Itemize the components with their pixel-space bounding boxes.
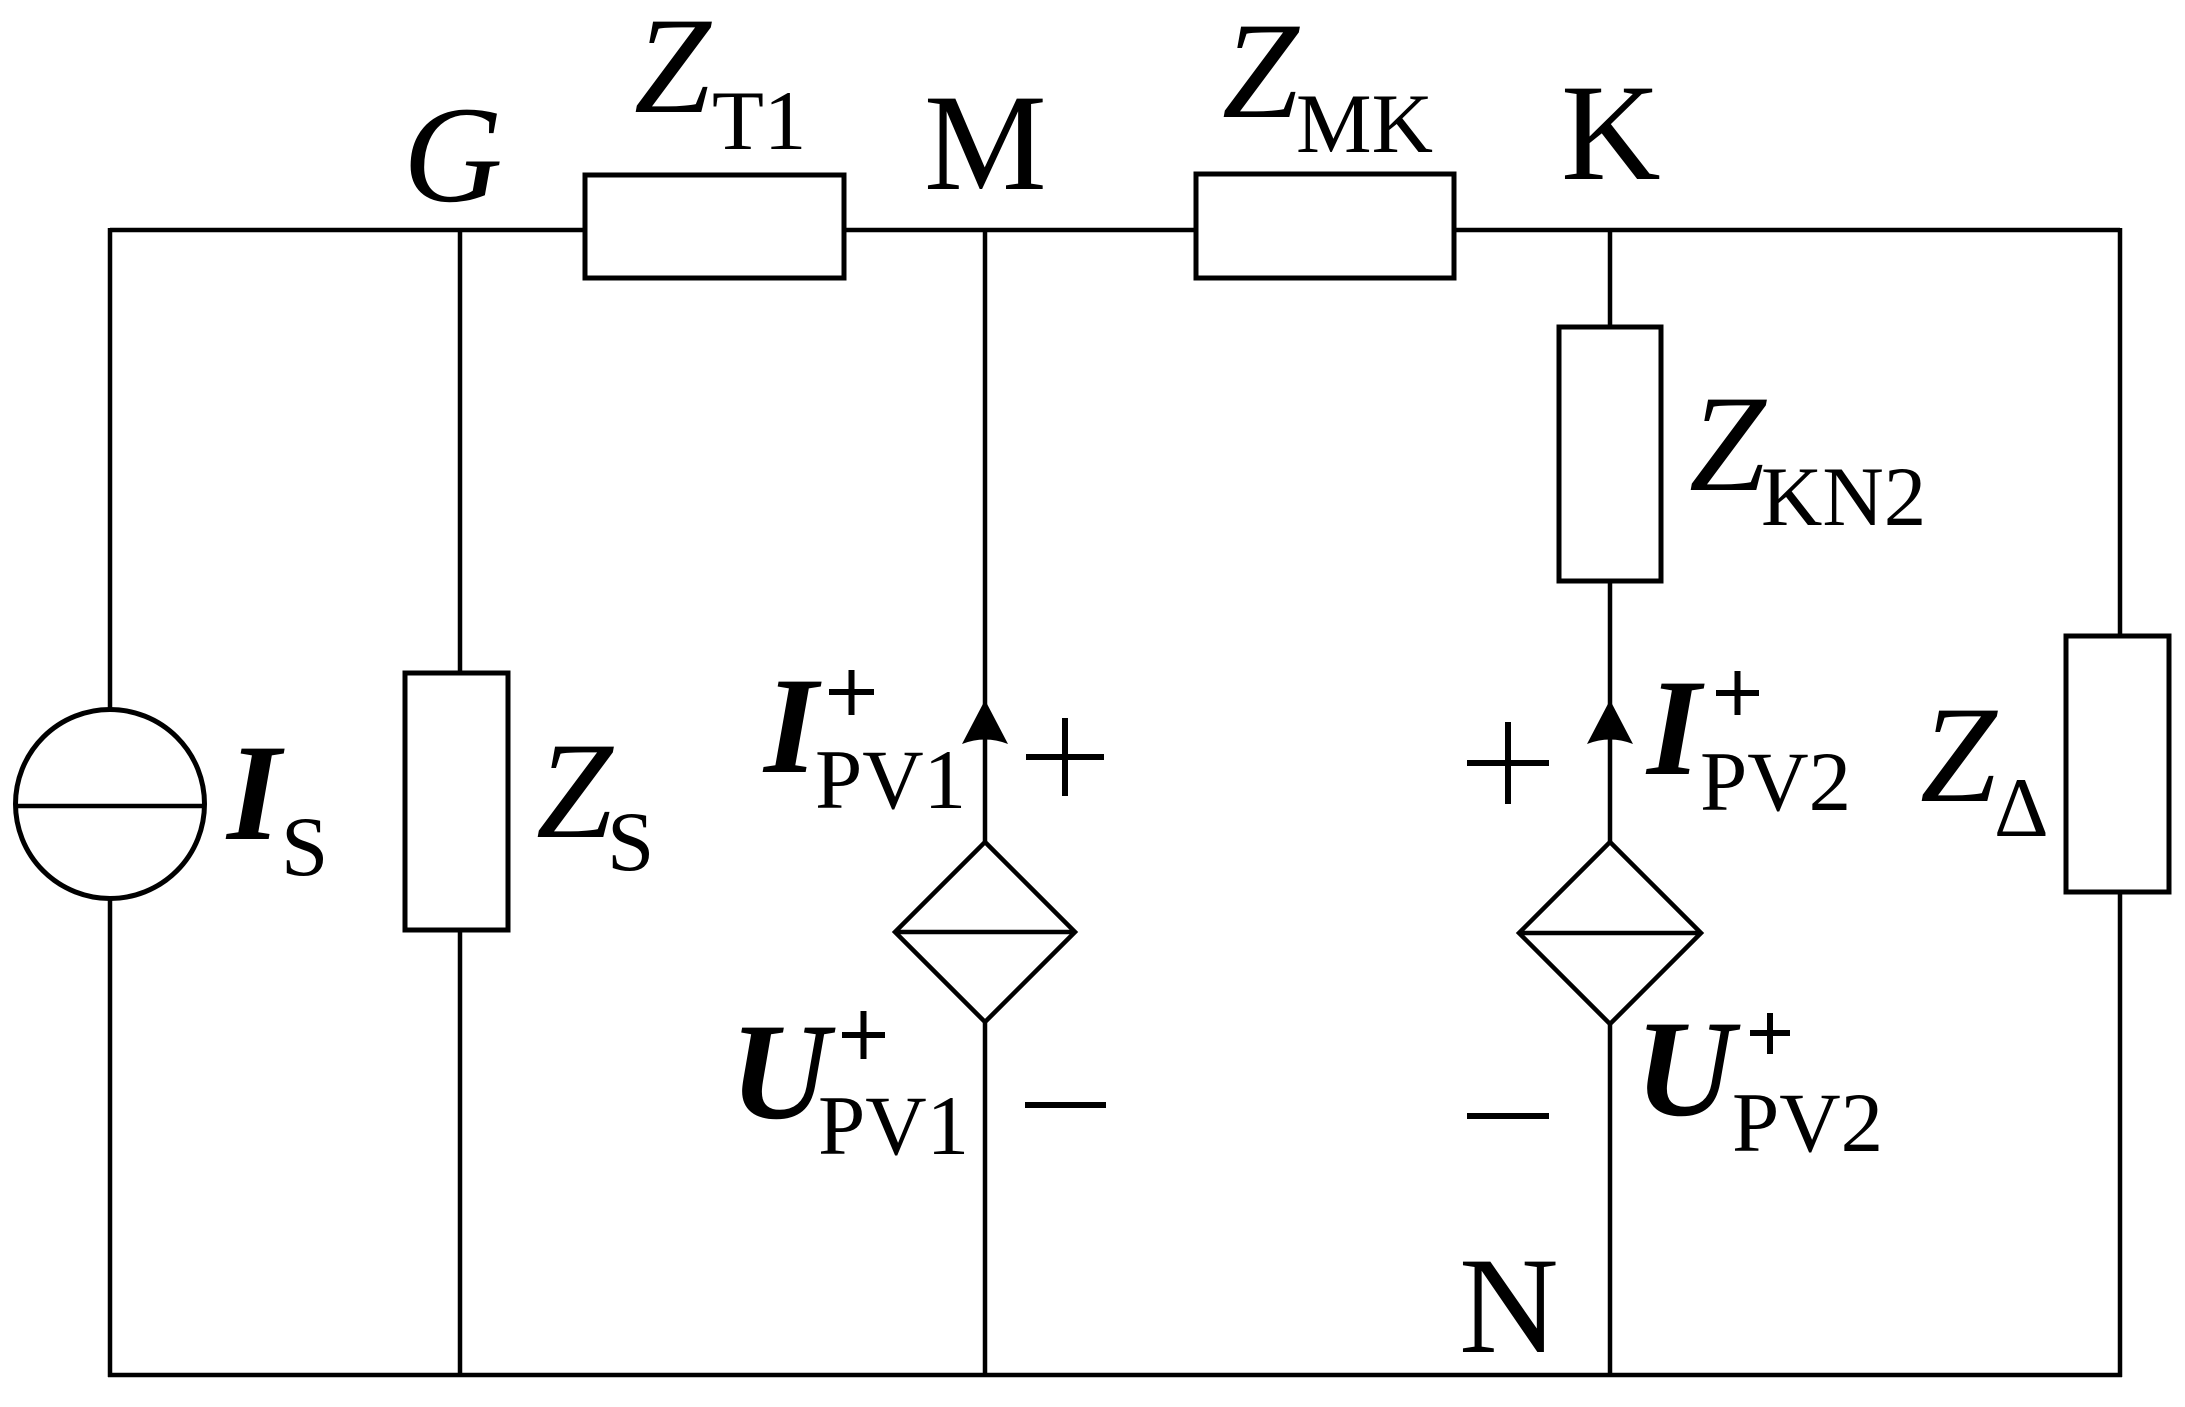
label I_PV2 with superscript +: [1645, 651, 1851, 829]
svg-text:K: K: [1561, 56, 1661, 209]
impedance Z_delta (box): [2066, 636, 2169, 892]
svg-text:PV2: PV2: [1700, 735, 1851, 829]
svg-text:M: M: [924, 66, 1047, 219]
svg-text:S: S: [607, 795, 654, 889]
svg-text:I: I: [762, 649, 822, 802]
svg-text:N: N: [1459, 1229, 1559, 1382]
wire: top bus from left corner to right corner: [110, 228, 2120, 233]
svg-text:I: I: [225, 716, 285, 869]
controlled source PV1 (diamond): [895, 842, 1075, 1022]
svg-text:Δ: Δ: [1994, 761, 2049, 855]
svg-text:PV1: PV1: [818, 1079, 969, 1173]
svg-text:T1: T1: [712, 74, 806, 168]
current source I_S (circle with bar): [16, 710, 205, 899]
svg-text:Z: Z: [634, 0, 712, 142]
svg-text:PV1: PV1: [815, 733, 966, 827]
polarity - of U_PV2: [1467, 1113, 1549, 1119]
svg-text:MK: MK: [1296, 77, 1433, 171]
svg-text:G: G: [403, 78, 503, 231]
svg-text:S: S: [281, 800, 328, 894]
label I_PV1 with superscript +: [762, 649, 966, 827]
arrowhead of I_PV1: [962, 700, 1008, 744]
label Z_S: [536, 714, 654, 889]
svg-text:Z: Z: [1689, 367, 1767, 520]
controlled source PV2 (diamond): [1519, 842, 1701, 1024]
wire: right vertical branch: [2118, 228, 2123, 1377]
label I_S: [225, 716, 328, 894]
svg-text:PV2: PV2: [1732, 1076, 1883, 1170]
wire: left vertical branch: [108, 228, 113, 1377]
impedance Z_KN2 (box): [1559, 327, 1661, 581]
label Z_KN2: [1689, 367, 1926, 544]
label U_PV2 with superscript +: [1635, 992, 1883, 1170]
polarity + of U_PV1: [1026, 718, 1104, 796]
polarity - of U_PV1: [1025, 1102, 1106, 1108]
label U_PV1 with superscript +: [730, 995, 969, 1173]
svg-text:U: U: [1635, 992, 1741, 1145]
svg-text:Z: Z: [1222, 0, 1300, 147]
impedance Z_S (box): [405, 673, 508, 930]
impedance Z_MK (box): [1196, 174, 1454, 278]
wire: node G branch with Zs: [458, 230, 463, 1375]
arrowhead of I_PV2: [1587, 700, 1633, 744]
label Z_MK: [1222, 0, 1433, 171]
wire: node M branch with PV1 source: [983, 230, 988, 1375]
wire: bottom bus: [108, 1373, 2122, 1378]
svg-text:Z: Z: [1920, 678, 1998, 831]
svg-text:I: I: [1645, 651, 1705, 804]
polarity + of U_PV2: [1467, 722, 1549, 804]
label Z_delta: [1920, 678, 2049, 855]
impedance Z_T1 (box): [585, 175, 844, 278]
label Z_T1: [634, 0, 806, 168]
svg-text:Z: Z: [536, 714, 614, 867]
wire: node K branch with Zkn2 and PV2 source: [1608, 230, 1613, 1375]
svg-text:KN2: KN2: [1761, 450, 1926, 544]
